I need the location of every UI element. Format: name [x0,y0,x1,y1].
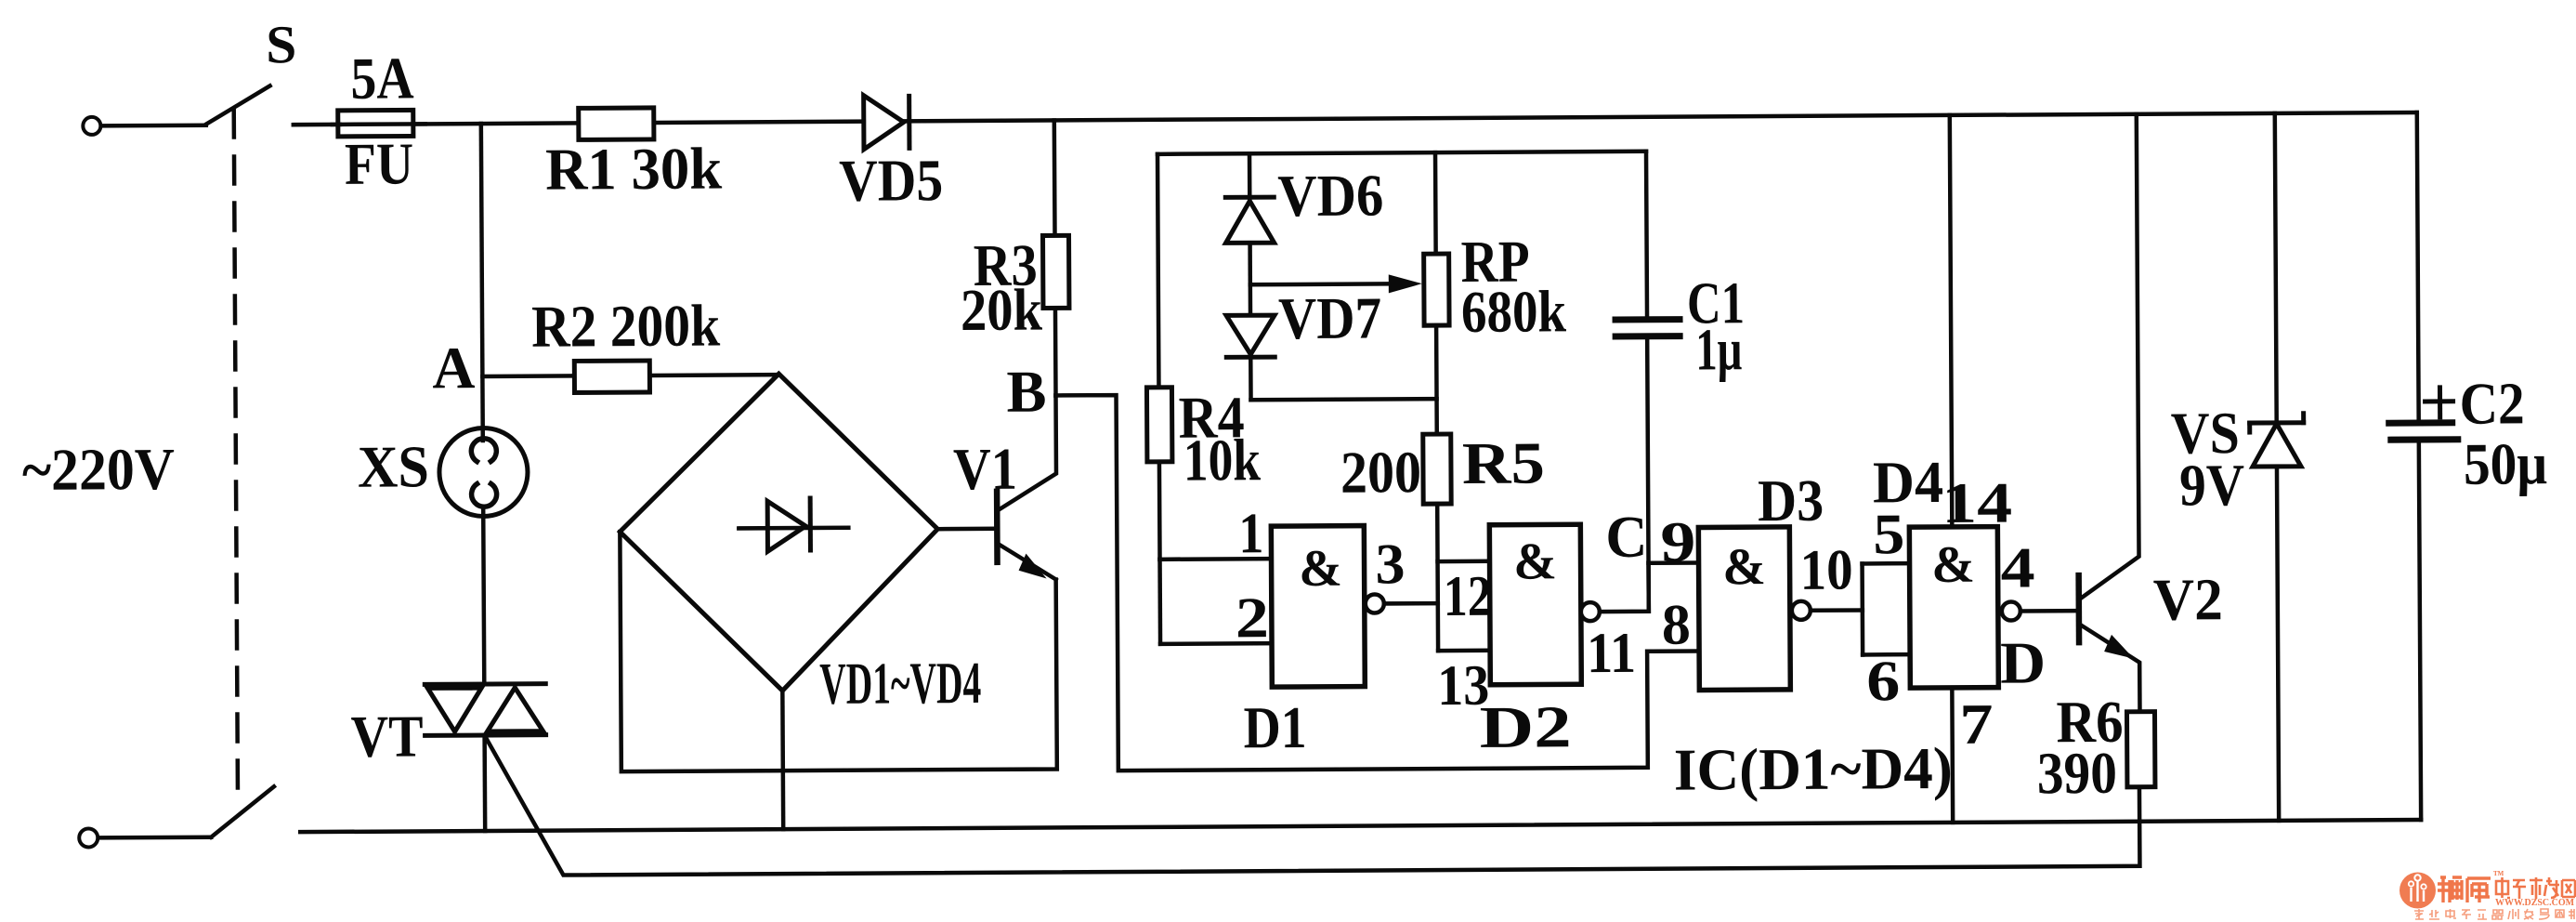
switch S lower pole [211,786,274,836]
transistor V1 [994,492,1000,562]
svg-text:6: 6 [1866,650,1900,713]
wire top rail [904,112,2417,121]
svg-text:11: 11 [1587,622,1636,685]
svg-text:1: 1 [1238,502,1263,565]
pin 14 wire [1950,115,1953,527]
gate D3 [1698,527,1790,691]
gate D2 [1489,524,1581,685]
wire bridge right to base [937,527,997,532]
wire [654,122,864,123]
svg-text:R2 200k: R2 200k [531,293,721,360]
resistor R5 [1423,434,1451,504]
capacitor C2 [2417,112,2419,419]
wire bridge left to emitter return [620,529,1056,771]
gate D4 [1909,527,1998,689]
svg-text:TM: TM [2493,870,2504,877]
wire pin9 [1649,560,1699,565]
watermark small glyphs 电子市场网 [2496,877,2575,899]
diode VD5 [864,95,904,149]
wire triac to bottom rail [482,735,487,831]
svg-text:VD1~VD4: VD1~VD4 [819,650,981,717]
wire triac gate [486,728,2140,876]
svg-text:V1: V1 [953,436,1017,502]
triac VT [425,681,545,687]
svg-text:D2: D2 [1479,693,1571,760]
svg-text:C: C [1605,504,1647,570]
wiper arrow to RP [1250,282,1402,286]
watermark big glyphs [2438,877,2491,902]
wire [481,124,483,441]
svg-text:&: & [1299,540,1342,598]
wire VD7 to RP bottom [1251,399,1437,400]
wire D1 out [1384,601,1438,606]
wire D4 inputs [1860,563,1864,654]
svg-text:FU: FU [345,130,413,196]
gate D1 [1271,526,1365,688]
svg-text:VT: VT [350,703,423,769]
svg-text:3: 3 [1375,533,1405,596]
svg-text:B: B [1006,359,1046,425]
resistor R2 [574,361,649,392]
resistor R4 [1157,154,1158,388]
svg-text:4: 4 [2000,536,2034,599]
wire [98,835,211,839]
svg-text:20k: 20k [961,277,1043,344]
wire D4 out [2020,609,2079,613]
pin 7 wire [1950,688,1955,823]
svg-text:9V: 9V [2179,452,2244,518]
wire [294,123,340,127]
watermark logo circle [2399,870,2575,919]
svg-text:VD6: VD6 [1277,162,1383,229]
potentiometer RP [1433,152,1438,254]
wire [649,373,778,377]
switch S [206,86,270,124]
svg-text:~220V: ~220V [22,436,175,503]
wire bridge bottom to rail [780,691,785,829]
svg-text:D3: D3 [1758,468,1824,533]
svg-text:IC(D1~D4): IC(D1~D4) [1674,735,1953,803]
wire bottom rail [300,820,2421,832]
svg-text:200: 200 [1340,439,1421,505]
svg-text:&: & [1513,533,1557,590]
svg-text:7: 7 [1959,693,1993,757]
svg-text:D1: D1 [1243,694,1306,760]
plus sign [2438,388,2442,417]
wire D1 inputs [1157,560,1162,644]
terminal bottom-left [79,828,98,847]
svg-text:8: 8 [1662,594,1691,657]
dashed gang link [234,111,238,801]
wire [482,374,574,378]
svg-text:R1 30k: R1 30k [545,136,723,203]
svg-text:12: 12 [1444,565,1492,628]
svg-text:&: & [1722,538,1766,596]
watermark slogan glyphs [2414,909,2574,919]
wire D2 inputs [1438,560,1490,564]
wire [101,123,206,127]
svg-text:C2: C2 [2459,370,2524,436]
svg-text:50μ: 50μ [2464,430,2547,497]
svg-text:A: A [432,335,475,401]
resistor R6 [2126,712,2154,787]
svg-text:9: 9 [1660,510,1695,573]
svg-text:1μ: 1μ [1695,316,1742,382]
svg-text:VD7: VD7 [1278,284,1381,351]
capacitor C1 [1646,151,1647,320]
wire [413,123,579,124]
svg-text:R5: R5 [1462,429,1545,496]
svg-text:680k: 680k [1461,278,1567,345]
svg-text:WWW.DZSC.COM: WWW.DZSC.COM [2495,898,2575,908]
svg-text:&: & [1931,536,1975,594]
resistor R3 [1053,120,1057,235]
svg-text:14: 14 [1942,472,2012,535]
transistor V2 [2075,575,2082,642]
terminal top-left [83,117,100,135]
svg-text:S: S [266,14,296,74]
svg-text:D: D [2000,629,2046,695]
svg-text:D4: D4 [1873,449,1943,515]
zener VS [2275,113,2277,423]
socket XS [439,428,529,517]
svg-text:10k: 10k [1183,427,1262,493]
diode VD7 [1249,284,1253,315]
bridge rectifier VD1-VD4 [619,373,938,691]
svg-text:5A: 5A [350,45,413,111]
resistor R1 [579,108,654,139]
wire D3 out [1811,608,1863,612]
svg-text:10: 10 [1799,539,1852,602]
svg-text:V2: V2 [2153,566,2223,632]
wire B to D3 pin8 [1056,391,1700,771]
svg-text:390: 390 [2037,740,2117,806]
svg-text:2: 2 [1236,586,1269,650]
fuse FU [338,110,413,136]
oscillator box top [1157,151,1646,154]
diode VD6 [1248,153,1252,199]
wire D2 out to node C [1600,563,1649,612]
svg-text:VD5: VD5 [839,147,943,214]
svg-text:XS: XS [358,433,429,499]
